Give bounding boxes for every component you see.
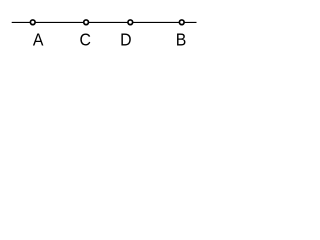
svg-text:B: B (176, 30, 187, 50)
node C (79, 20, 90, 50)
node D (120, 20, 133, 50)
svg-text:D: D (120, 30, 131, 50)
svg-text:A: A (33, 30, 44, 50)
svg-text:C: C (79, 30, 90, 50)
node B (176, 20, 187, 50)
node A (30, 20, 44, 50)
wire (12, 21, 197, 23)
